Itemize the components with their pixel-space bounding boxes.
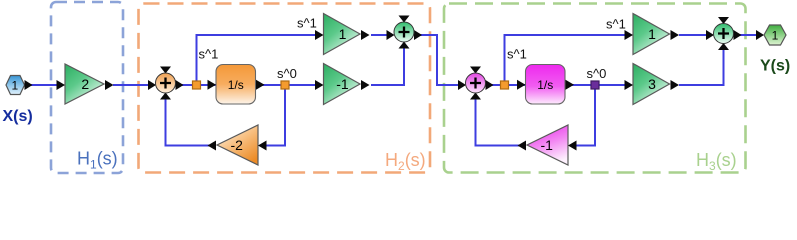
svg-text:1: 1 <box>648 26 656 42</box>
svg-text:-1: -1 <box>336 76 349 92</box>
svg-text:-2: -2 <box>230 137 243 153</box>
svg-text:Y(s): Y(s) <box>760 58 790 75</box>
svg-text:H2(s): H2(s) <box>385 150 426 173</box>
svg-text:H1(s): H1(s) <box>77 149 118 172</box>
svg-text:s^1: s^1 <box>507 47 527 62</box>
svg-text:2: 2 <box>81 76 89 92</box>
svg-text:s^0: s^0 <box>277 66 297 81</box>
svg-text:3: 3 <box>648 76 656 92</box>
svg-text:s^0: s^0 <box>587 66 607 81</box>
svg-text:X(s): X(s) <box>3 108 33 125</box>
svg-text:s^1: s^1 <box>606 17 626 32</box>
svg-text:1/s: 1/s <box>537 78 553 92</box>
svg-text:s^1: s^1 <box>297 16 317 31</box>
svg-text:1: 1 <box>11 79 18 93</box>
svg-text:1: 1 <box>772 29 779 43</box>
svg-text:1/s: 1/s <box>228 78 244 92</box>
svg-text:s^1: s^1 <box>199 47 219 62</box>
svg-text:H3(s): H3(s) <box>696 150 737 173</box>
svg-text:-1: -1 <box>540 137 553 153</box>
svg-text:1: 1 <box>339 26 347 42</box>
